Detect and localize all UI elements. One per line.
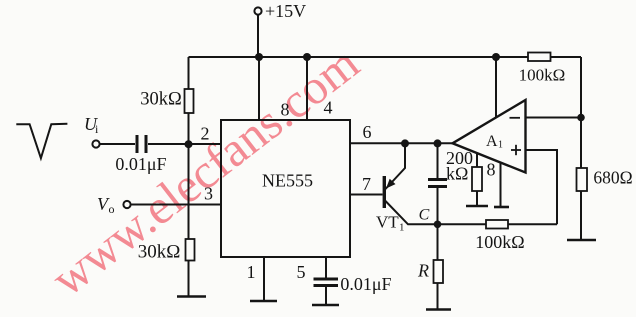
svg-text:0.01μF: 0.01μF xyxy=(115,154,166,174)
svg-text:680Ω: 680Ω xyxy=(593,168,632,188)
svg-text:+15V: +15V xyxy=(265,1,306,21)
svg-text:3: 3 xyxy=(204,184,213,204)
svg-text:A: A xyxy=(486,133,498,150)
svg-text:VT: VT xyxy=(376,213,399,232)
svg-text:30kΩ: 30kΩ xyxy=(140,90,182,110)
svg-text:6: 6 xyxy=(363,122,372,142)
svg-text:1: 1 xyxy=(247,262,256,282)
svg-text:100kΩ: 100kΩ xyxy=(475,232,524,252)
svg-text:8: 8 xyxy=(281,100,290,120)
svg-text:kΩ: kΩ xyxy=(446,164,468,184)
svg-text:1: 1 xyxy=(399,222,405,234)
svg-text:100kΩ: 100kΩ xyxy=(519,66,566,85)
svg-text:2: 2 xyxy=(201,124,210,144)
svg-text:8: 8 xyxy=(487,160,496,180)
svg-text:1: 1 xyxy=(498,140,503,151)
svg-text:R: R xyxy=(417,261,429,281)
svg-text:5: 5 xyxy=(297,262,306,282)
svg-text:C: C xyxy=(419,207,430,224)
svg-text:0.01μF: 0.01μF xyxy=(340,274,391,294)
svg-text:7: 7 xyxy=(362,174,371,194)
svg-text:i: i xyxy=(95,122,99,136)
svg-text:30kΩ: 30kΩ xyxy=(138,242,181,263)
svg-text:o: o xyxy=(109,202,115,216)
svg-text:4: 4 xyxy=(324,98,333,118)
svg-text:NE555: NE555 xyxy=(262,171,313,191)
